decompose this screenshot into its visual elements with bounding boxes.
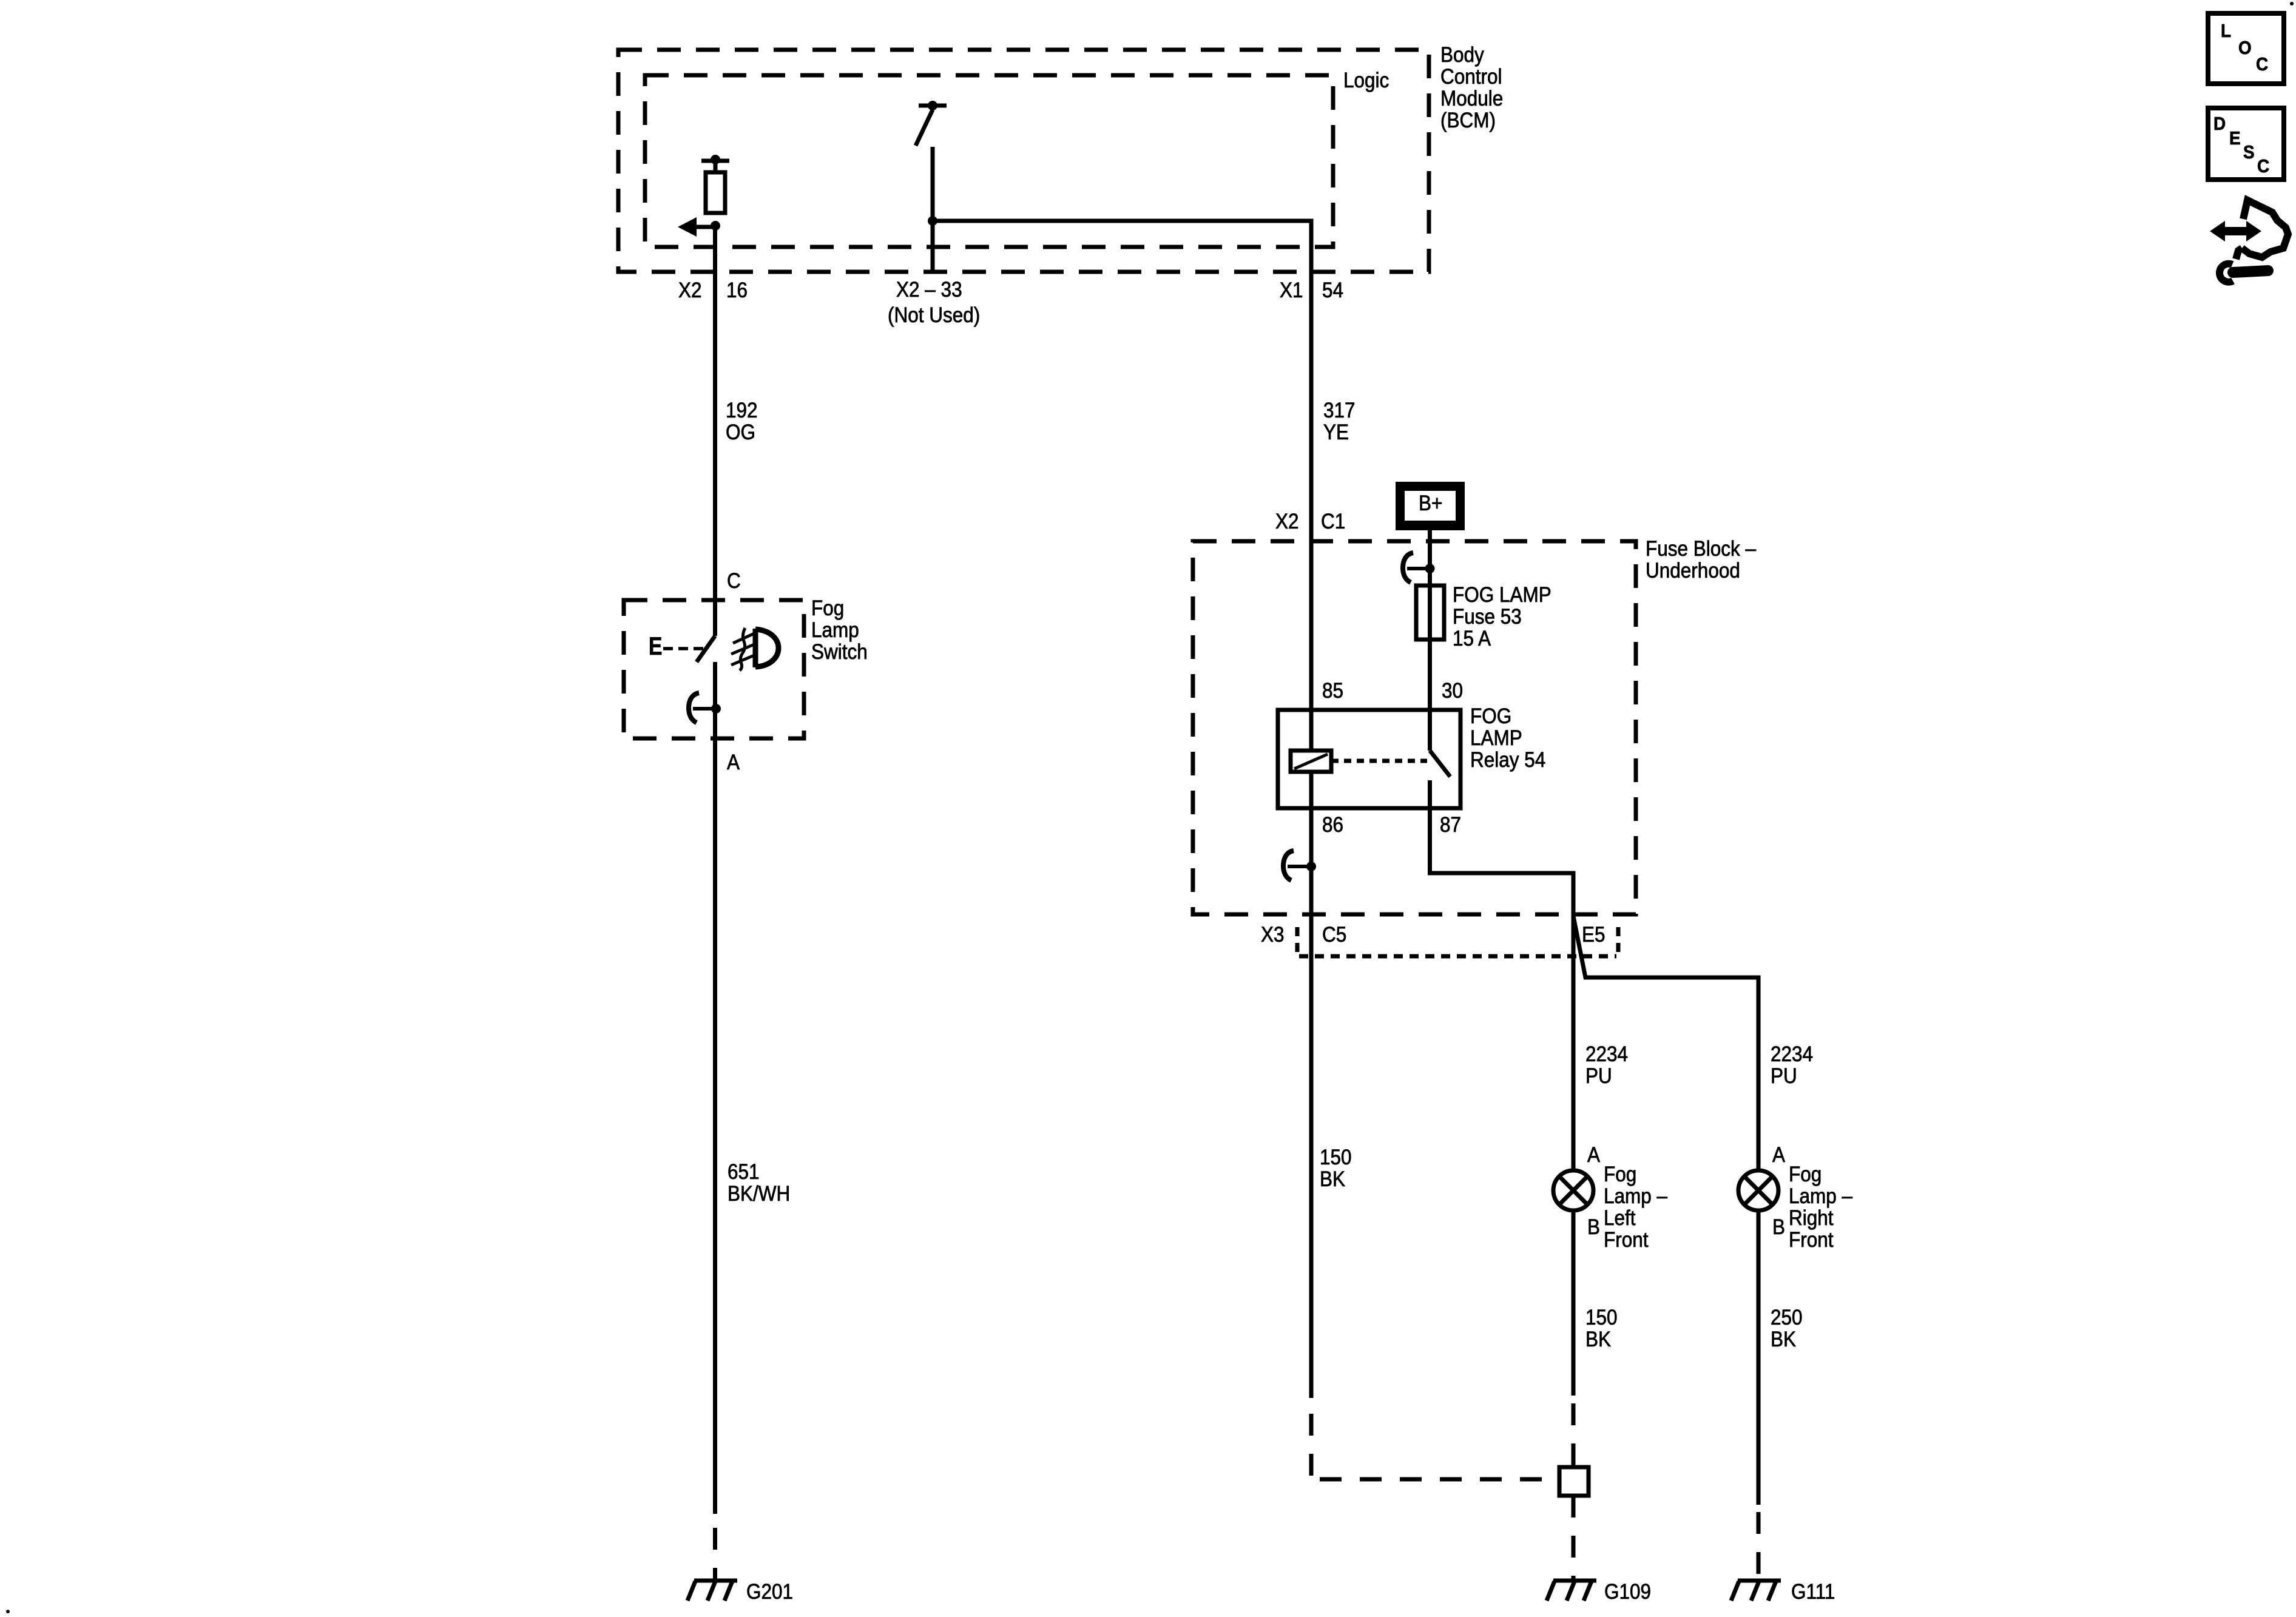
logic box (inner dashed) — [645, 75, 1333, 247]
label Fog Lamp Switch — [811, 598, 868, 663]
arrow output (signal to left) — [678, 217, 715, 237]
fog lamp switch blade — [697, 636, 715, 662]
connector line X3/C5/E5 (dotted) — [1297, 927, 1618, 956]
label FOG LAMP Fuse 53 15 A — [1453, 584, 1551, 650]
wire B+ to relay pin 30 — [1428, 530, 1432, 751]
relay contact blade — [1430, 751, 1451, 777]
dashed wire left lamp to splice — [1572, 1403, 1576, 1467]
ground label G201 — [746, 1581, 793, 1603]
pin label 87 — [1440, 814, 1461, 836]
relay box FOG LAMP relay 54 — [1278, 710, 1460, 808]
wire label 150 BK (left lamp) — [1585, 1307, 1618, 1351]
fog lamp switch box (dashed) — [624, 600, 804, 738]
dashed wire splice to G109 — [1572, 1496, 1576, 1579]
connector label X1 (BCM) — [1280, 280, 1303, 302]
switch X2-33 (BCM internal, not used) — [916, 101, 947, 272]
resistor (BCM internal driver) — [701, 155, 729, 213]
pin label A (left lamp) — [1587, 1144, 1600, 1166]
connector label X2 (BCM) — [678, 280, 702, 302]
pin label B (right lamp) — [1772, 1217, 1785, 1238]
fuse block underhood box (dashed) — [1193, 541, 1636, 914]
connector label X2 (fuse block) — [1275, 511, 1299, 533]
pin label 54 — [1322, 280, 1343, 302]
fog lamp left front (lamp symbol) — [1553, 1170, 1593, 1210]
wire label 150 BK (C5) — [1320, 1147, 1352, 1190]
splice hook at relay pin 86 — [1283, 851, 1311, 880]
fog lamp icon — [731, 628, 778, 670]
label Fuse Block Underhood — [1646, 538, 1756, 582]
splice box S-connection — [1559, 1467, 1589, 1496]
wire label 2234 PU (left) — [1585, 1044, 1628, 1087]
ground G109 — [1547, 1581, 1596, 1601]
pin label X2-33 — [896, 279, 962, 301]
node junction under resistor — [711, 221, 720, 231]
wire label 192 OG — [726, 400, 758, 444]
ground G201 — [687, 1581, 737, 1601]
wire label 651 BK/WH — [728, 1161, 790, 1205]
splice hook below B+ — [1403, 553, 1430, 582]
fuse FOG LAMP 53 — [1416, 586, 1444, 640]
label B+ — [1419, 493, 1442, 515]
wire to X1-54 and down (317 YE) — [933, 221, 1311, 1398]
node junction below pin 86 — [1306, 862, 1316, 871]
splice hook at switch ground pin — [689, 693, 716, 723]
node junction at switch pin A — [711, 704, 721, 714]
label Fog Lamp Right Front — [1789, 1164, 1852, 1251]
label E (switch position) — [649, 635, 662, 657]
node junction on X2-33 wire — [928, 216, 937, 226]
label FOG LAMP Relay 54 — [1470, 706, 1545, 771]
pin label 16 — [726, 280, 748, 302]
wire E5 branch to right fog lamp — [1573, 916, 1758, 1505]
ground label G111 — [1791, 1581, 1835, 1603]
module box BCM (outer dashed) — [618, 50, 1429, 272]
icon DESC box — [2208, 108, 2284, 180]
pin label A (right lamp) — [1772, 1144, 1785, 1166]
pin label C — [727, 570, 741, 592]
label Logic — [1343, 70, 1389, 92]
pin label E5 — [1582, 924, 1606, 946]
page artifact dot top-right — [2290, 2, 2294, 5]
wire X2-16 vertical (192 OG drive) — [713, 226, 717, 636]
relay coil — [1291, 751, 1331, 772]
dashed wire to G201 — [713, 1528, 717, 1579]
wire label 317 YE — [1323, 400, 1356, 444]
wire label 250 BK (right lamp) — [1771, 1307, 1803, 1351]
label Fog Lamp Left Front — [1604, 1164, 1667, 1251]
pin label 86 — [1322, 814, 1343, 836]
label Body Control Module (BCM) — [1440, 44, 1503, 132]
icon letters LOC — [2221, 20, 2231, 42]
icon LOC box — [2208, 13, 2284, 84]
pin label C5 — [1322, 924, 1346, 946]
pin label C1 — [1321, 511, 1345, 533]
ground G111 — [1731, 1581, 1781, 1601]
wire switch A down (651 BK/WH) — [713, 662, 717, 1514]
fog lamp right front (lamp symbol) — [1738, 1170, 1778, 1210]
node junction below B+ — [1425, 564, 1435, 573]
wire label 2234 PU (right) — [1771, 1044, 1813, 1087]
pin label 30 — [1442, 680, 1463, 702]
ground label G109 — [1604, 1581, 1651, 1603]
B+ battery feed box — [1396, 482, 1465, 530]
pin label B (left lamp) — [1587, 1217, 1600, 1238]
note (Not Used) — [888, 305, 980, 326]
icon connector service (arrow, outline, wrench) — [2210, 200, 2288, 282]
dashed wire 150 BK from C5 — [1311, 1414, 1557, 1479]
page artifact dot bottom-left — [6, 1610, 10, 1613]
pin label 85 — [1322, 680, 1343, 702]
relay dashed actuator link — [1331, 759, 1427, 763]
dashed wire right lamp to G111 — [1757, 1512, 1761, 1579]
connector label X3 (fuse block) — [1261, 924, 1285, 946]
icon letters DESC — [2213, 113, 2226, 135]
switch detent dashed link from E — [663, 647, 704, 650]
wire pin 87 to E5 — [1430, 780, 1574, 1396]
pin label A — [727, 752, 740, 774]
